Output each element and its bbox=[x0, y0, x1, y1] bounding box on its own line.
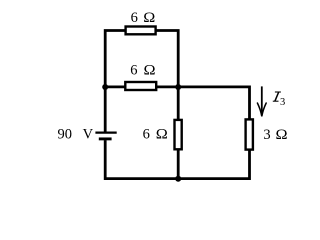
svg-text:Ω: Ω bbox=[156, 126, 168, 142]
svg-text:3: 3 bbox=[280, 97, 285, 108]
svg-text:6: 6 bbox=[130, 63, 137, 79]
svg-text:90: 90 bbox=[58, 127, 73, 143]
svg-text:Ω: Ω bbox=[143, 10, 155, 26]
svg-text:V: V bbox=[83, 127, 94, 143]
svg-text:Ω: Ω bbox=[144, 62, 156, 78]
svg-text:Ω: Ω bbox=[276, 127, 288, 143]
svg-text:6: 6 bbox=[131, 10, 138, 26]
svg-text:3: 3 bbox=[263, 127, 270, 143]
svg-text:6: 6 bbox=[143, 127, 150, 143]
